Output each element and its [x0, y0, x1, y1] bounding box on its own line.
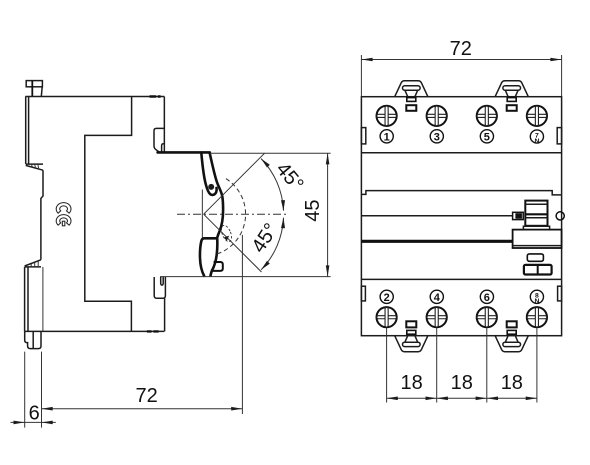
svg-text:N: N [535, 138, 540, 145]
bottom small rects [406, 321, 516, 334]
lower double wall [25, 267, 28, 332]
seal circle on edge [556, 212, 564, 220]
svg-text:72: 72 [450, 38, 472, 60]
pivot dot [208, 184, 214, 190]
terminal label 1 [380, 130, 393, 144]
svg-text:45: 45 [302, 199, 324, 221]
upper 45deg arc [261, 159, 283, 211]
72 dimension line [42, 408, 243, 410]
toggle lever down position right edge [211, 238, 218, 275]
72 extension lines left [25, 352, 42, 428]
window [527, 254, 543, 261]
small tab on down lever [213, 262, 223, 271]
diagonal up 45 [204, 153, 265, 214]
lower DIN clip [25, 331, 41, 348]
terminal label 3 [430, 130, 443, 144]
bottom clamps [395, 336, 428, 352]
thin front edge below center [201, 190, 203, 238]
toggle lever up position [201, 153, 216, 195]
horizontal panel lines [361, 153, 561, 280]
inner contour [85, 97, 132, 332]
screw terminal top 1 [377, 106, 397, 126]
terminal label 7N [530, 130, 543, 145]
svg-text:N: N [535, 298, 540, 305]
45 vertical dimension [210, 152, 331, 154]
terminal label 2 [380, 290, 393, 304]
72 extension line right [241, 235, 243, 414]
handle [525, 201, 547, 226]
svg-text:72: 72 [136, 385, 158, 407]
svg-text:2: 2 [384, 292, 390, 304]
svg-text:18: 18 [451, 372, 473, 394]
svg-text:6: 6 [484, 292, 490, 304]
svg-text:1: 1 [384, 131, 390, 143]
upper foot with hatch [26, 164, 43, 170]
screw terminal bot 1 [377, 307, 397, 327]
screw terminal bot 4 [527, 307, 547, 327]
surround block [513, 230, 562, 248]
18 dimensions [387, 328, 537, 403]
svg-text:6: 6 [29, 402, 40, 424]
terminal label 8N [530, 290, 543, 305]
dashed arc lever travel r42 [217, 179, 246, 255]
toggle mechanism [513, 201, 565, 275]
middle edge with jog [41, 170, 43, 260]
screw terminal bot 3 [477, 307, 497, 327]
side tabs [361, 128, 561, 301]
svg-text:18: 18 [401, 372, 423, 394]
mold ticks top [150, 95, 161, 97]
mold ticks bottom [147, 330, 159, 332]
screw terminal top 4 [527, 106, 547, 126]
diagonal down 45 [204, 214, 262, 272]
screw terminal bot 2 [427, 307, 447, 327]
notch channel [154, 128, 164, 152]
terminal label 4 [430, 290, 443, 304]
top clamps [395, 81, 428, 111]
step under bulge + down lever left edge [200, 238, 217, 276]
upper right edge [163, 97, 165, 152]
CE mark rotated (outlined letters) [56, 203, 71, 226]
svg-text:3: 3 [434, 131, 440, 143]
lower 45deg arc [261, 218, 283, 270]
inner wall lower right [42, 267, 44, 332]
lower hook [154, 277, 165, 298]
bottom edge [25, 330, 165, 332]
left profile: upper double wall [26, 97, 29, 164]
lower foot with hatch [25, 260, 41, 267]
svg-text:18: 18 [501, 372, 523, 394]
lower right edge [164, 298, 166, 331]
6 dimension [11, 421, 56, 423]
top DIN clip tab [26, 81, 42, 97]
terminal label 5 [480, 130, 493, 144]
top edge [25, 96, 164, 98]
handle base [523, 226, 549, 229]
screw terminal top 3 [477, 106, 497, 126]
bottom front face + extension to 45 dim [160, 276, 331, 278]
front bulge (pivot housing) [210, 153, 223, 238]
small ellipse indicator [219, 224, 233, 243]
terminal label 6 [480, 290, 493, 304]
test button [524, 265, 552, 275]
notch inner hook [162, 144, 165, 152]
top 72 dimension [361, 55, 561, 96]
centerline horizontal [177, 213, 287, 215]
svg-text:5: 5 [484, 131, 490, 143]
svg-text:4: 4 [434, 292, 441, 304]
button w/ dark fill [513, 212, 524, 219]
body outline [361, 97, 561, 336]
screw terminal top 2 [427, 106, 447, 126]
front top face (thick) [158, 151, 210, 154]
